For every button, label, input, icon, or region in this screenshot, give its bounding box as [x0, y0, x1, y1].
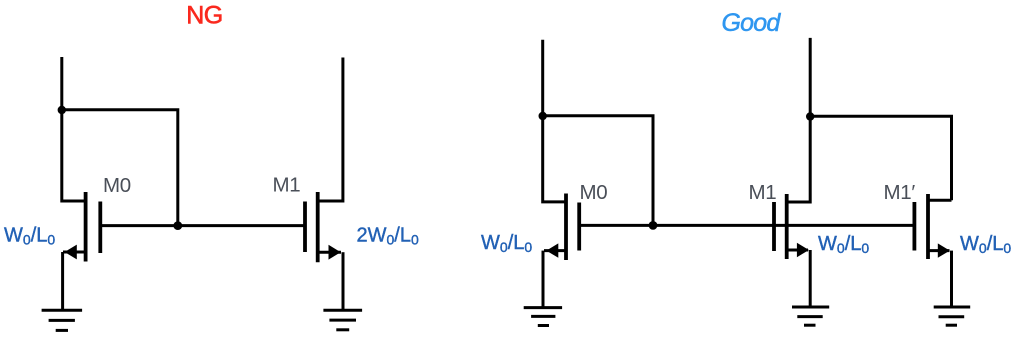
- wire: M0 drain rail (right circuit): [543, 40, 566, 202]
- ground symbol under M1 (right circuit): [792, 307, 829, 325]
- wire: M0 source down to ground (right circuit): [542, 251, 545, 308]
- svg-text:2W0/L0: 2W0/L0: [357, 225, 419, 248]
- wire: M1 source down to ground: [342, 252, 345, 310]
- transistor M0 (left circuit, gate at right): [63, 192, 100, 262]
- svg-text:M0: M0: [103, 174, 131, 197]
- svg-text:M1: M1: [273, 174, 301, 197]
- svg-text:W0/L0: W0/L0: [960, 233, 1011, 256]
- node: junction on gate bus below feedback wire (right circuit): [649, 221, 658, 230]
- wire: diode feedback from M0 drain to gate bus (right circuit): [543, 116, 653, 226]
- wire: M1 drain lead up to top tail: [318, 58, 343, 202]
- transistor M0 (right circuit, gate at right): [544, 194, 579, 261]
- wire: M1 drain lead up to top tail (right circuit): [787, 38, 811, 202]
- wire: diode feedback from M0 drain to gate bus: [62, 110, 178, 226]
- ground symbol under M0 (left circuit): [42, 310, 83, 330]
- ground symbol under M0 (right circuit): [524, 308, 562, 326]
- node: junction on M1 drain rail feeding M1': [806, 112, 814, 120]
- svg-text:W0/L0: W0/L0: [4, 225, 55, 248]
- ground symbol under M1' (right circuit): [934, 307, 971, 325]
- wire: gate bus M0 to M1: [100, 224, 305, 227]
- wire: M0 drain rail (top tail down to drain lead): [62, 57, 86, 201]
- wire: M1 source down to ground (right circuit): [809, 250, 812, 307]
- svg-text:M1: M1: [749, 181, 777, 204]
- svg-text:NG: NG: [186, 2, 223, 30]
- node: diode-connection junction on M0 drain (right circuit): [539, 112, 547, 120]
- wire: branch from M1 drain over to M1' drain: [810, 116, 951, 200]
- node: diode-connection junction on M0 drain: [58, 106, 66, 114]
- svg-text:W0/L0: W0/L0: [818, 233, 869, 256]
- svg-text:W0/L0: W0/L0: [481, 232, 532, 255]
- ground symbol under M1 (left circuit): [323, 310, 362, 330]
- svg-text:M0: M0: [580, 181, 608, 204]
- wire: M1' source down to ground: [950, 251, 953, 307]
- transistor M1 (left circuit, gate at left): [305, 192, 341, 262]
- transistor M1' (right circuit, gate at left): [914, 194, 949, 259]
- wire: M0 source down to ground: [61, 252, 64, 310]
- svg-text:M1′: M1′: [884, 181, 916, 204]
- transistor M1 (right circuit, gate at left): [774, 194, 809, 259]
- wire: M1' drain lead: [928, 199, 952, 202]
- wire: gate bus M0 to M1 to M1' (right circuit): [579, 224, 914, 227]
- node: junction on gate bus below feedback wire: [173, 221, 182, 230]
- svg-text:Good: Good: [722, 9, 782, 37]
